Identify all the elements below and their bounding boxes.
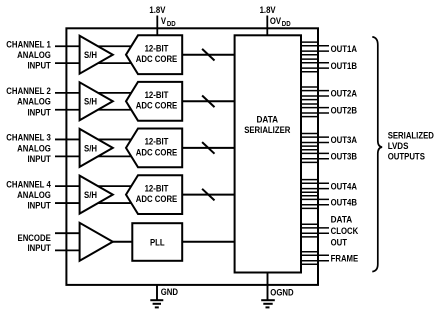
svg-text:OUT3A: OUT3A [331,135,357,146]
svg-text:ADC CORE: ADC CORE [136,194,178,205]
svg-text:S/H: S/H [84,97,97,108]
svg-text:ADC CORE: ADC CORE [136,101,178,112]
svg-text:CHANNEL 4: CHANNEL 4 [6,179,51,190]
svg-text:OUT3B: OUT3B [331,152,357,163]
svg-text:ADC CORE: ADC CORE [136,54,178,65]
svg-text:12-BIT: 12-BIT [145,137,169,148]
svg-text:ENCODE: ENCODE [18,233,52,244]
svg-text:OUT2B: OUT2B [331,106,357,117]
svg-text:OV: OV [270,16,282,27]
svg-text:DATA: DATA [331,215,353,226]
svg-text:S/H: S/H [84,50,97,61]
svg-text:S/H: S/H [84,143,97,154]
svg-text:SERIALIZER: SERIALIZER [244,125,290,136]
svg-text:ADC CORE: ADC CORE [136,147,178,158]
svg-text:ANALOG: ANALOG [17,190,51,201]
svg-text:INPUT: INPUT [28,107,51,118]
svg-text:OUT2A: OUT2A [331,89,357,100]
svg-text:PLL: PLL [150,237,165,248]
svg-text:12-BIT: 12-BIT [145,183,169,194]
svg-text:CHANNEL 2: CHANNEL 2 [6,86,51,97]
svg-text:OUT1B: OUT1B [331,61,357,72]
svg-text:OGND: OGND [270,287,293,298]
svg-text:12-BIT: 12-BIT [145,90,169,101]
svg-text:INPUT: INPUT [28,243,51,254]
svg-text:OUT: OUT [331,237,348,248]
svg-text:1.8V: 1.8V [260,5,276,16]
svg-text:OUT1A: OUT1A [331,44,357,55]
svg-text:ANALOG: ANALOG [17,97,51,108]
svg-text:INPUT: INPUT [28,201,51,212]
svg-text:CHANNEL 1: CHANNEL 1 [6,40,51,51]
svg-text:OUTPUTS: OUTPUTS [388,151,426,162]
svg-text:INPUT: INPUT [28,61,51,72]
svg-text:DD: DD [282,19,291,28]
svg-text:ANALOG: ANALOG [17,50,51,61]
svg-text:DD: DD [167,19,176,28]
svg-text:INPUT: INPUT [28,154,51,165]
svg-text:V: V [161,16,167,27]
svg-text:SERIALIZED: SERIALIZED [388,131,434,142]
svg-text:1.8V: 1.8V [149,5,165,16]
svg-text:OUT4B: OUT4B [331,198,357,209]
svg-text:DATA: DATA [257,115,279,126]
svg-text:CLOCK: CLOCK [331,226,359,237]
svg-text:ANALOG: ANALOG [17,143,51,154]
svg-text:CHANNEL 3: CHANNEL 3 [6,133,51,144]
svg-text:FRAME: FRAME [331,253,359,264]
svg-text:GND: GND [161,287,178,298]
svg-text:OUT4A: OUT4A [331,181,357,192]
svg-text:S/H: S/H [84,190,97,201]
svg-text:12-BIT: 12-BIT [145,44,169,55]
